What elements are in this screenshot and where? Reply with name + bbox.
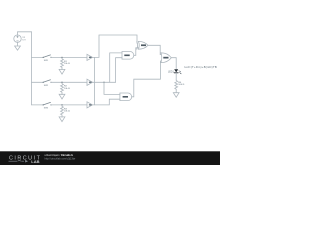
bus wire [31, 32, 33, 105]
wire OR1 out to LED [171, 58, 176, 69]
wire buffer1 out to XOR top [93, 35, 138, 57]
ground under R2 [59, 94, 65, 99]
logo CIRCUIT LAB [9, 155, 42, 164]
wire XOR1 out to OR1 top [148, 45, 161, 54]
svg-text:LED1: LED1 [168, 71, 174, 73]
node row3 junction [61, 104, 62, 105]
node row1 junction [61, 57, 62, 58]
wire row2 to buffer [51, 81, 87, 83]
xor gate XOR1 [137, 41, 148, 49]
svg-text:urbanrizqani / Circuits b: urbanrizqani / Circuits b [45, 153, 74, 157]
svg-text:5 V: 5 V [22, 39, 26, 41]
wire to AND1 bottom [116, 58, 122, 83]
ground under R3 [59, 117, 65, 122]
svg-text:10k Ω: 10k Ω [64, 63, 70, 65]
footer bar [0, 151, 220, 165]
LED LED1 [174, 69, 181, 74]
ground under R1 [59, 69, 65, 74]
ground right [173, 93, 179, 98]
wire source top elbow [18, 32, 32, 35]
wire R4 to ground [175, 90, 177, 93]
resistor R1 [61, 58, 64, 70]
buffer BUF1 [87, 54, 93, 60]
voltage source V1 [14, 35, 21, 42]
wire to AND1 top [110, 53, 122, 82]
or gate OR1 [161, 53, 171, 63]
switch SW3 [43, 102, 52, 105]
wire interrow vertical 1-2 [93, 57, 95, 82]
wire row3 to buffer [51, 104, 87, 106]
resistor R3 [61, 105, 64, 117]
wire LED to R4 [175, 73, 177, 80]
wire AND1 out to XOR bottom [134, 48, 138, 56]
svg-text:LAB: LAB [31, 159, 39, 164]
switch SW1 [43, 55, 52, 58]
svg-text:http://circuitlab.com/c3j13tw: http://circuitlab.com/c3j13tw [45, 158, 76, 161]
wire buffer2 out branches [93, 81, 116, 83]
ground under V1 [15, 46, 21, 50]
svg-text:led=(T+Dm)+B(mD)TB: led=(T+Dm)+B(mD)TB [185, 65, 218, 69]
and gate AND2 [120, 93, 132, 101]
wire source bottom [17, 42, 19, 45]
svg-text:10k Ω: 10k Ω [64, 111, 70, 113]
svg-text:10k Ω: 10k Ω [64, 88, 70, 90]
resistor R2 [61, 83, 64, 95]
wire buffer2 to AND2 top [104, 82, 120, 94]
wire row1 left [32, 56, 44, 58]
wire AND2 out to OR1 bottom [132, 61, 162, 97]
switch SW2 [43, 80, 52, 83]
resistor R4 [175, 80, 178, 90]
buffer BUF2 [87, 79, 93, 85]
and gate AND1 [122, 52, 134, 60]
buffer BUF3 [87, 102, 93, 108]
wire row3 left [32, 104, 44, 106]
wire row2 left [32, 81, 44, 83]
svg-text:100 Ω: 100 Ω [178, 84, 184, 86]
node row2 junction [61, 82, 62, 83]
wire interrow vertical 2-3 [93, 82, 95, 105]
wire row1 to buffer [51, 56, 87, 58]
wire buffer3 out to AND2 bottom [93, 99, 120, 105]
